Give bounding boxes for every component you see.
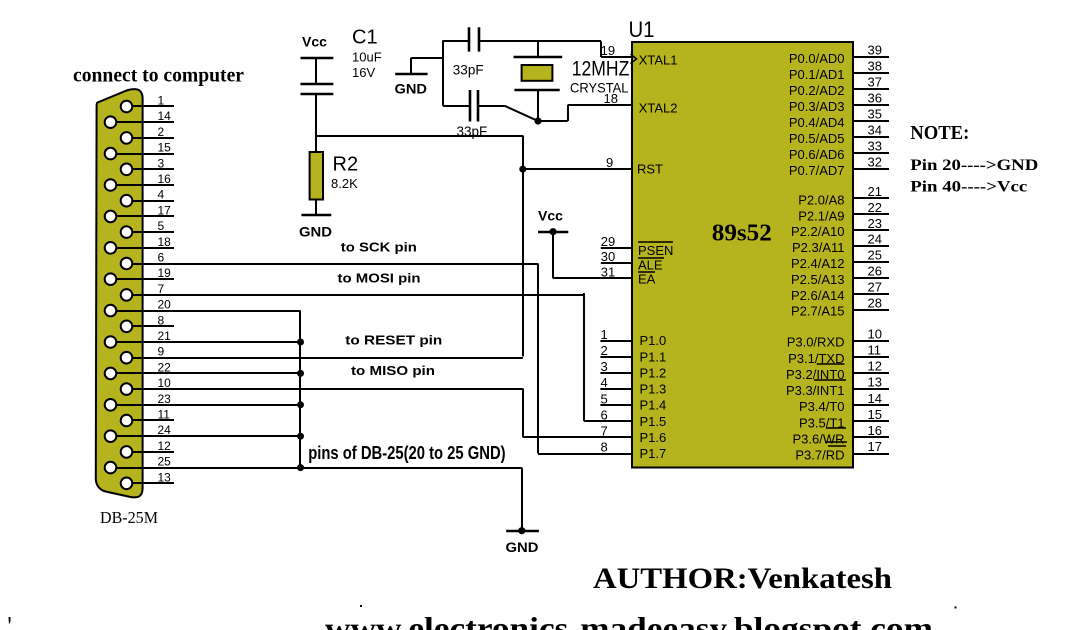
U1 P0.0 pin stub	[853, 56, 889, 58]
svg-text:P1.4: P1.4	[640, 398, 667, 413]
svg-text:3: 3	[158, 156, 165, 170]
wire C3 right	[478, 105, 504, 107]
wire Vcc to U1 EA pin 31	[553, 277, 632, 279]
svg-text:P1.5: P1.5	[640, 414, 667, 429]
svg-text:7: 7	[158, 282, 165, 296]
J1 pin 2 contact	[121, 132, 133, 144]
junction GND bus pin 21	[297, 339, 304, 346]
overline ALE	[638, 257, 664, 259]
svg-text:37: 37	[868, 75, 882, 90]
svg-text:19: 19	[601, 43, 615, 58]
line under T1	[826, 427, 846, 429]
J1 pin 3 stub	[127, 168, 175, 170]
wire GND from J1 pin 24 to bus	[111, 435, 301, 437]
U1 P1.1 pin stub	[600, 356, 633, 358]
svg-text:XTAL1: XTAL1	[639, 52, 678, 67]
capacitor C3 plate B	[477, 90, 480, 122]
J1 pin 12 stub	[127, 451, 175, 453]
J1 pin 3 contact	[121, 164, 133, 176]
svg-text:P2.0/A8: P2.0/A8	[798, 192, 844, 207]
wire MISO to U1 P1.6	[523, 436, 632, 438]
U1 P3.3 pin stub	[853, 388, 889, 390]
line under WR	[825, 441, 847, 443]
svg-text:DB-25M: DB-25M	[100, 508, 158, 527]
wire down to XTAL1 stub	[600, 41, 602, 57]
svg-text:EA: EA	[638, 271, 656, 286]
wire R2 to GND	[315, 200, 317, 216]
svg-text:15: 15	[158, 141, 172, 155]
svg-text:Pin 20---->GND: Pin 20---->GND	[910, 157, 1038, 174]
svg-text:to MOSI pin: to MOSI pin	[338, 270, 421, 285]
svg-text:9: 9	[606, 155, 613, 170]
wire RESET from J1 pin 9	[127, 357, 523, 359]
svg-text:13: 13	[868, 375, 882, 390]
wire crystal top	[537, 41, 539, 57]
svg-text:PSEN: PSEN	[638, 243, 673, 258]
svg-text:GND: GND	[506, 539, 539, 555]
J1 pin 13 stub	[127, 482, 175, 484]
wire Vcc down	[552, 232, 554, 279]
svg-text:33pF: 33pF	[453, 63, 484, 78]
junction GND bus pin 23	[297, 401, 304, 408]
ground bar (bottom)	[506, 530, 539, 533]
svg-text:24: 24	[158, 423, 172, 437]
J1 pin 8 stub	[127, 325, 175, 327]
svg-text:3: 3	[601, 359, 608, 374]
svg-text:P2.2/A10: P2.2/A10	[791, 224, 845, 239]
svg-text:5: 5	[601, 391, 608, 406]
wire GND from J1 pin 20 to bus	[111, 310, 301, 312]
wire MOSI from J1 pin 7	[127, 294, 585, 296]
svg-text:21: 21	[868, 184, 882, 199]
resistor R2	[310, 152, 323, 200]
J1 pin 11 contact	[121, 415, 133, 427]
svg-text:Vcc: Vcc	[302, 34, 327, 50]
svg-text:11: 11	[158, 408, 171, 422]
svg-text:AUTHOR:Venkatesh: AUTHOR:Venkatesh	[593, 562, 892, 595]
wire C1 to R2	[315, 94, 317, 152]
svg-text:25: 25	[868, 248, 882, 263]
J1 pin 24 contact	[105, 430, 117, 442]
svg-text:P0.7/AD7: P0.7/AD7	[789, 163, 845, 178]
J1 pin 25 contact	[105, 462, 117, 474]
stray dot right	[955, 607, 957, 609]
wire RST to U1 pin 9	[523, 168, 632, 170]
svg-text:15: 15	[868, 407, 882, 422]
U1 P1.3 pin stub	[600, 388, 633, 390]
J1 pin 15 stub	[111, 153, 175, 155]
wire GND bus horizontal	[301, 467, 522, 469]
svg-text:P0.5/AD5: P0.5/AD5	[789, 131, 845, 146]
svg-text:P1.2: P1.2	[640, 366, 667, 381]
capacitor C3 plate A	[469, 90, 472, 122]
svg-text:1: 1	[601, 327, 608, 342]
U1 P1.2 pin stub	[600, 372, 633, 374]
U1 P0.4 pin stub	[853, 120, 889, 122]
J1 pin 19 contact	[105, 273, 117, 285]
svg-text:P0.2/AD2: P0.2/AD2	[789, 83, 845, 98]
U1 ALE pin stub	[601, 262, 632, 264]
capacitor C1 bottom plate	[301, 93, 334, 96]
wire node to XTAL2 riser	[538, 120, 568, 122]
svg-text:33pF: 33pF	[457, 124, 488, 139]
svg-text:8.2K: 8.2K	[331, 176, 358, 191]
wire RST down	[522, 136, 524, 170]
svg-text:CRYSTAL: CRYSTAL	[570, 80, 629, 96]
wire caps gnd side	[442, 40, 444, 105]
svg-text:38: 38	[868, 59, 882, 74]
svg-text:12: 12	[868, 359, 882, 374]
svg-text:19: 19	[158, 266, 172, 280]
wire GND from J1 pin 22 to bus	[111, 372, 301, 374]
J1 pin 5 stub	[127, 231, 175, 233]
U1 P3.6 pin stub	[853, 436, 889, 438]
svg-text:29: 29	[601, 234, 615, 249]
svg-text:P2.1/A9: P2.1/A9	[798, 208, 844, 223]
svg-text:20: 20	[158, 298, 172, 312]
U1 P2.6 pin stub	[853, 293, 889, 295]
line under INT0	[814, 379, 846, 381]
svg-text:C1: C1	[352, 27, 378, 49]
svg-text:P1.6: P1.6	[640, 430, 667, 445]
junction GND bus pin 24	[297, 433, 304, 440]
svg-text:U1: U1	[629, 17, 655, 42]
U1 XTAL1 pin stub	[601, 56, 632, 58]
svg-text:P2.5/A13: P2.5/A13	[791, 272, 845, 287]
U1 P0.6 pin stub	[853, 152, 889, 154]
J1 pin 18 contact	[105, 242, 117, 254]
junction RST node	[519, 166, 526, 173]
U1 P3.5 pin stub	[853, 420, 889, 422]
svg-text:R2: R2	[333, 154, 359, 176]
wire RST to RESET line	[522, 169, 524, 356]
wire GND from J1 pin 23 to bus	[111, 404, 301, 406]
svg-text:16V: 16V	[352, 65, 375, 80]
svg-text:39: 39	[868, 43, 882, 58]
svg-text:2: 2	[601, 343, 608, 358]
U1 PSEN pin stub	[601, 247, 632, 249]
wire SCK vertical	[537, 264, 539, 454]
U1 P2.1 pin stub	[853, 213, 889, 215]
connector J1 DB-25M shell	[96, 89, 143, 497]
svg-text:GND: GND	[299, 224, 332, 240]
svg-text:26: 26	[868, 264, 882, 279]
wire diagonal to crystal node	[505, 106, 538, 121]
J1 pin 19 stub	[111, 278, 175, 280]
svg-text:30: 30	[601, 249, 615, 264]
U1 P0.5 pin stub	[853, 136, 889, 138]
svg-text:34: 34	[868, 123, 882, 138]
J1 pin 2 stub	[127, 137, 175, 139]
J1 pin 12 contact	[121, 446, 133, 458]
J1 pin 1 stub	[127, 105, 175, 107]
svg-text:P3.3/INT1: P3.3/INT1	[786, 383, 845, 398]
svg-text:P1.0: P1.0	[640, 333, 667, 348]
wire MOSI vertical	[583, 293, 585, 421]
U1 P3.7 pin stub	[853, 453, 889, 455]
svg-text:P1.3: P1.3	[640, 382, 667, 397]
svg-text:23: 23	[868, 216, 882, 231]
ground bar (crystal)	[395, 73, 427, 76]
svg-text:P3.7/RD: P3.7/RD	[795, 448, 844, 463]
crystal X1	[514, 56, 563, 59]
svg-text:P2.3/A11: P2.3/A11	[792, 240, 845, 255]
wire Vcc to C1	[315, 58, 317, 85]
svg-text:Vcc: Vcc	[538, 208, 563, 224]
svg-text:35: 35	[868, 107, 882, 122]
wire SCK to U1 P1.7	[538, 453, 632, 455]
svg-text:1: 1	[158, 94, 165, 108]
U1 P1.0 pin stub	[600, 340, 633, 342]
U1 P0.2 pin stub	[853, 88, 889, 90]
wire GND from J1 pin 21 to bus	[111, 341, 301, 343]
stray mark bottom-left	[9, 617, 11, 625]
svg-text:4: 4	[158, 188, 165, 202]
J1 pin 11 stub	[127, 419, 175, 421]
J1 pin 22 contact	[105, 368, 117, 380]
U1 P2.3 pin stub	[853, 245, 889, 247]
svg-text:Pin 40---->Vcc: Pin 40---->Vcc	[910, 179, 1027, 196]
capacitor C1 top plate	[301, 83, 334, 86]
svg-text:22: 22	[868, 200, 882, 215]
wire to C3 left	[443, 105, 470, 107]
line under TXD	[817, 363, 845, 365]
svg-text:14: 14	[158, 109, 172, 123]
U1 P2.0 pin stub	[853, 197, 889, 199]
svg-text:14: 14	[868, 391, 882, 406]
U1 P0.7 pin stub	[853, 168, 889, 170]
svg-text:13: 13	[158, 470, 172, 484]
J1 pin 6 contact	[121, 258, 133, 270]
svg-text:P0.0/AD0: P0.0/AD0	[789, 51, 845, 66]
svg-text:27: 27	[868, 279, 882, 294]
svg-text:89s52: 89s52	[712, 221, 772, 247]
ground riser	[410, 58, 412, 74]
U1 XTAL2 pin stub	[568, 104, 632, 106]
svg-text:9: 9	[158, 345, 165, 359]
svg-text:10: 10	[868, 326, 882, 341]
J1 pin 13 contact	[121, 478, 133, 490]
svg-text:P0.6/AD6: P0.6/AD6	[789, 147, 845, 162]
J1 pin 9 contact	[121, 352, 133, 364]
J1 pin 18 stub	[111, 247, 175, 249]
svg-text:11: 11	[868, 342, 882, 357]
svg-text:8: 8	[601, 440, 608, 455]
U1 P0.3 pin stub	[853, 104, 889, 106]
stray dot left	[360, 605, 362, 607]
U1 P2.5 pin stub	[853, 277, 889, 279]
svg-text:P2.7/A15: P2.7/A15	[791, 304, 845, 319]
J1 pin 17 contact	[105, 211, 117, 223]
svg-text:4: 4	[601, 375, 608, 390]
J1 pin 8 contact	[121, 321, 133, 333]
wire crystal bottom	[537, 90, 539, 121]
svg-text:6: 6	[601, 407, 608, 422]
wire GND bus vertical	[299, 311, 301, 468]
overline PSEN	[638, 241, 673, 243]
capacitor C2 plate A	[468, 27, 471, 51]
svg-text:32: 32	[868, 155, 882, 170]
Vcc bar (C1)	[301, 57, 334, 60]
J1 pin 21 contact	[105, 336, 117, 348]
svg-text:P1.1: P1.1	[640, 349, 667, 364]
svg-text:17: 17	[868, 439, 882, 454]
J1 pin 17 stub	[111, 215, 175, 217]
wire GND from J1 pin 25 to bus	[111, 467, 301, 469]
wire MISO vertical	[522, 389, 524, 438]
wire gnd hook	[411, 57, 443, 59]
svg-text:31: 31	[601, 265, 615, 280]
svg-text:www.electronics-madeeasy.blogs: www.electronics-madeeasy.blogspot.com	[325, 610, 933, 630]
svg-text:ALE: ALE	[638, 257, 663, 272]
wire to GND symbol	[521, 468, 523, 531]
U1 P3.4 pin stub	[853, 404, 889, 406]
J1 pin 14 stub	[111, 121, 175, 123]
svg-text:16: 16	[868, 423, 882, 438]
svg-text:connect to computer: connect to computer	[73, 65, 244, 87]
svg-text:36: 36	[868, 91, 882, 106]
junction GND bus pin 22	[297, 370, 304, 377]
svg-text:12MHZ: 12MHZ	[572, 58, 630, 81]
svg-text:12: 12	[158, 439, 172, 453]
svg-text:7: 7	[601, 424, 608, 439]
J1 pin 20 contact	[105, 305, 117, 317]
svg-text:P0.1/AD1: P0.1/AD1	[789, 67, 845, 82]
svg-text:22: 22	[158, 360, 172, 374]
line over RD	[828, 445, 846, 447]
svg-text:XTAL2: XTAL2	[639, 101, 678, 116]
node: RST net horizontal to IC	[316, 135, 523, 137]
J1 pin 14 contact	[105, 116, 117, 128]
U1 P1.4 pin stub	[600, 404, 633, 406]
svg-text:to RESET pin: to RESET pin	[345, 332, 442, 347]
J1 pin 4 contact	[121, 195, 133, 207]
J1 pin 1 contact	[121, 101, 133, 113]
U1 P2.7 pin stub	[853, 309, 889, 311]
wire SCK from J1 pin 6	[127, 263, 539, 265]
svg-text:16: 16	[158, 172, 172, 186]
wire MOSI to U1 P1.5	[584, 420, 632, 422]
svg-text:10uF: 10uF	[352, 50, 382, 65]
svg-text:33: 33	[868, 139, 882, 154]
svg-text:6: 6	[158, 251, 165, 265]
svg-text:28: 28	[868, 295, 882, 310]
svg-text:8: 8	[158, 313, 165, 327]
ground bar (R2)	[301, 214, 331, 217]
svg-text:P2.4/A12: P2.4/A12	[791, 256, 845, 271]
svg-text:pins of DB-25(20 to 25 GND): pins of DB-25(20 to 25 GND)	[308, 443, 505, 463]
J1 pin 16 contact	[105, 179, 117, 191]
wire XTAL2 riser	[567, 105, 569, 121]
U1 P0.1 pin stub	[853, 72, 889, 74]
svg-text:NOTE:: NOTE:	[910, 122, 969, 144]
wire C2 to XTAL1	[479, 40, 601, 42]
svg-text:P3.0/RXD: P3.0/RXD	[787, 335, 845, 350]
IC U1 89s52 body	[632, 42, 853, 468]
U1 P2.2 pin stub	[853, 229, 889, 231]
U1 P3.2 pin stub	[853, 372, 889, 374]
svg-text:to MISO pin: to MISO pin	[351, 363, 435, 378]
J1 pin 23 contact	[105, 399, 117, 411]
svg-text:to SCK pin: to SCK pin	[341, 240, 417, 255]
capacitor C2 plate B	[478, 27, 481, 51]
J1 pin 4 stub	[127, 200, 175, 202]
overline EA	[638, 271, 655, 273]
U1 P3.0 pin stub	[853, 340, 889, 342]
junction GND dot	[518, 527, 525, 534]
svg-text:RST: RST	[637, 162, 663, 177]
J1 pin 10 contact	[121, 383, 133, 395]
svg-text:P3.4/T0: P3.4/T0	[799, 399, 845, 414]
J1 pin 5 contact	[121, 226, 133, 238]
junction crystal/XTAL2 node	[534, 117, 541, 124]
svg-text:2: 2	[158, 125, 165, 139]
junction GND bus pin 25	[297, 464, 304, 471]
Vcc bar (EA)	[538, 231, 568, 234]
svg-text:P0.3/AD3: P0.3/AD3	[789, 99, 845, 114]
U1 P3.1 pin stub	[853, 356, 889, 358]
U1 P2.4 pin stub	[853, 261, 889, 263]
svg-text:P3.6/WR: P3.6/WR	[792, 432, 844, 447]
svg-text:P1.7: P1.7	[640, 446, 667, 461]
svg-text:24: 24	[868, 232, 882, 247]
svg-text:10: 10	[158, 376, 172, 390]
wire MISO from J1 pin 10	[127, 388, 523, 390]
XTAL1 arrowhead	[631, 54, 637, 64]
svg-text:25: 25	[158, 455, 172, 469]
J1 pin 16 stub	[111, 184, 175, 186]
svg-text:P0.4/AD4: P0.4/AD4	[789, 115, 845, 130]
junction Vcc dot	[549, 228, 556, 235]
J1 pin 7 contact	[121, 289, 133, 301]
svg-text:18: 18	[158, 235, 172, 249]
svg-text:GND: GND	[395, 81, 428, 97]
svg-text:5: 5	[158, 219, 165, 233]
svg-text:23: 23	[158, 392, 172, 406]
wire to C2 left	[443, 40, 469, 42]
J1 pin 15 contact	[105, 148, 117, 160]
svg-text:P2.6/A14: P2.6/A14	[791, 288, 845, 303]
svg-text:21: 21	[158, 329, 172, 343]
svg-text:17: 17	[158, 203, 172, 217]
